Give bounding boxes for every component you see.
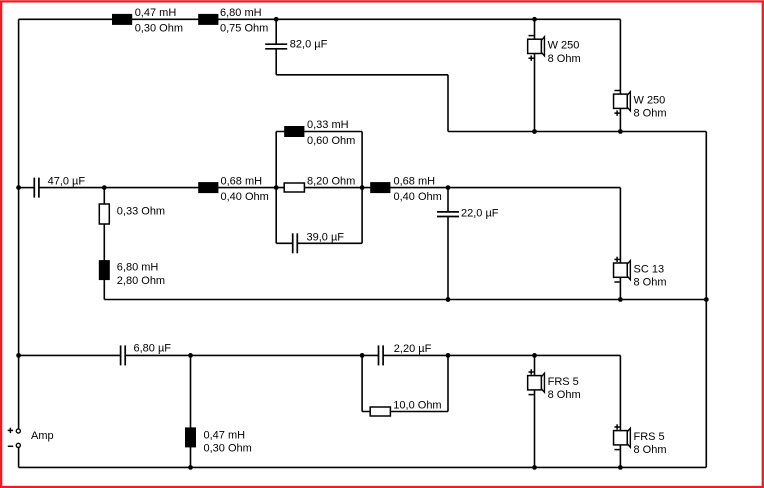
svg-text:8,20 Ohm: 8,20 Ohm	[307, 175, 355, 187]
svg-text:0,47 mH: 0,47 mH	[135, 7, 177, 19]
svg-text:2,20 µF: 2,20 µF	[394, 343, 432, 355]
svg-text:0,68 mH: 0,68 mH	[394, 175, 436, 187]
svg-text:SC 13: SC 13	[634, 263, 665, 275]
svg-text:0,60 Ohm: 0,60 Ohm	[307, 135, 355, 147]
svg-text:0,47 mH: 0,47 mH	[204, 430, 246, 442]
svg-text:0,75 Ohm: 0,75 Ohm	[220, 22, 268, 34]
svg-text:22,0 µF: 22,0 µF	[461, 208, 499, 220]
svg-text:0,40 Ohm: 0,40 Ohm	[221, 191, 269, 203]
svg-text:0,33 mH: 0,33 mH	[307, 119, 349, 131]
svg-text:47,0 µF: 47,0 µF	[48, 175, 86, 187]
svg-text:8 Ohm: 8 Ohm	[634, 108, 667, 120]
svg-text:82,0 µF: 82,0 µF	[290, 38, 328, 50]
svg-text:0,68 mH: 0,68 mH	[221, 175, 263, 187]
svg-text:39,0 µF: 39,0 µF	[307, 231, 345, 243]
svg-text:8 Ohm: 8 Ohm	[548, 53, 581, 65]
svg-text:6,80 mH: 6,80 mH	[117, 262, 159, 274]
svg-text:6,80 µF: 6,80 µF	[134, 342, 172, 354]
svg-text:8 Ohm: 8 Ohm	[634, 277, 667, 289]
svg-text:8 Ohm: 8 Ohm	[634, 444, 667, 456]
svg-text:0,40 Ohm: 0,40 Ohm	[394, 191, 442, 203]
svg-text:6,80 mH: 6,80 mH	[220, 7, 262, 19]
svg-text:W 250: W 250	[548, 40, 580, 52]
svg-text:FRS 5: FRS 5	[634, 431, 665, 443]
svg-text:8 Ohm: 8 Ohm	[548, 389, 581, 401]
svg-text:0,30 Ohm: 0,30 Ohm	[204, 443, 252, 455]
svg-text:10,0 Ohm: 10,0 Ohm	[393, 399, 441, 411]
svg-text:W 250: W 250	[634, 95, 666, 107]
svg-text:FRS 5: FRS 5	[548, 376, 579, 388]
svg-text:0,30 Ohm: 0,30 Ohm	[135, 22, 183, 34]
svg-text:2,80 Ohm: 2,80 Ohm	[117, 275, 165, 287]
svg-text:0,33 Ohm: 0,33 Ohm	[117, 205, 165, 217]
svg-text:Amp: Amp	[31, 430, 54, 442]
